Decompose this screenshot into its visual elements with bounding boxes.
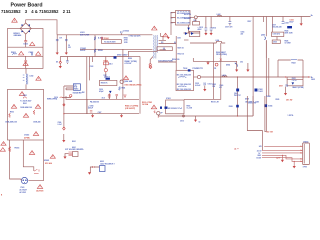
diode D901	[185, 32, 188, 35]
warning triangle at choke output	[163, 33, 168, 37]
bus3 continuing right of choke	[129, 56, 141, 58]
vertical x213.5	[213, 43, 215, 99]
cap drop 1	[205, 17, 207, 34]
SGND marks	[277, 157, 278, 159]
vertical x122.9	[122, 49, 124, 99]
vertical x140	[139, 57, 141, 114]
ground stub 2	[293, 161, 295, 166]
svg-text:D907: D907	[279, 86, 283, 88]
svg-text:CY1: CY1	[59, 37, 62, 39]
D903 diode on bus	[114, 56, 117, 58]
svg-text:C926: C926	[219, 85, 223, 87]
svg-text:Power Board: Power Board	[11, 3, 43, 9]
warning triangle mid	[29, 151, 34, 155]
gate network box	[99, 80, 117, 85]
svg-text:C910: C910	[180, 120, 184, 122]
AC inlet plug P901	[21, 177, 27, 183]
circle node Q	[194, 16, 197, 19]
svg-text:R W: R W	[74, 87, 78, 89]
title Power Board	[1, 3, 71, 14]
svg-text:R908: R908	[125, 61, 129, 63]
bus L line	[57, 34, 152, 36]
svg-text:222: 222	[68, 47, 71, 49]
junction dots on B+ rail	[285, 76, 286, 77]
svg-text:GND: GND	[257, 155, 261, 157]
Y-cap symbols on stubs	[56, 40, 68, 41]
IC903 box	[166, 100, 184, 114]
wire top right of T902	[193, 58, 210, 61]
svg-text:P901: P901	[21, 187, 25, 189]
svg-text:CY902 222 (OP): CY902 222 (OP)	[129, 36, 141, 38]
svg-text:R939 1K: R939 1K	[101, 83, 108, 85]
svg-text:C936: C936	[99, 89, 103, 91]
warning triangle	[36, 52, 41, 56]
svg-text:R932: R932	[212, 84, 216, 86]
svg-text:R916: R916	[187, 105, 191, 107]
warning triangle above Q904	[123, 76, 128, 80]
IC903 blue tabs	[160, 107, 162, 109]
svg-text:12: 12	[199, 121, 201, 123]
svg-text:B: B	[1, 194, 3, 196]
TH901 red box	[104, 62, 109, 65]
stub with cap on bus3	[66, 57, 68, 65]
top rail wire	[197, 16, 310, 18]
T901 winding box top	[176, 11, 191, 26]
svg-text:C933: C933	[90, 66, 94, 68]
warning triangle right of L902	[36, 76, 41, 80]
svg-text:17: 17	[279, 157, 281, 159]
C928 blue tab	[264, 104, 267, 107]
svg-text:C917 470: C917 470	[225, 25, 232, 28]
svg-text:IC903: IC903	[166, 98, 171, 100]
box around D902	[189, 31, 200, 36]
svg-text:Q903 A: Q903 A	[104, 75, 111, 78]
wire y40 stub	[184, 39, 189, 41]
section: top output rail	[197, 14, 313, 116]
svg-text:C916: C916	[212, 28, 216, 30]
svg-text:C921: C921	[290, 20, 294, 22]
small caps on those wires	[162, 41, 176, 43]
resistor R910	[94, 49, 96, 53]
warning triangle in box bottom	[23, 62, 28, 66]
capacitor C902	[32, 53, 33, 56]
svg-text:POWER TR: POWER TR	[193, 68, 204, 70]
svg-text:E901: E901	[72, 141, 76, 143]
cap drop 2	[210, 17, 212, 34]
svg-text:R935: R935	[276, 99, 280, 101]
diamond node right	[149, 66, 152, 69]
wire from IC box top right	[184, 43, 221, 99]
ground under choke	[149, 64, 151, 68]
C936 diode	[109, 91, 112, 94]
junction dot	[237, 115, 238, 116]
diamond node	[59, 61, 61, 64]
svg-text:MC 100-1090-1M: MC 100-1090-1M	[177, 89, 191, 91]
svg-text:H902: H902	[100, 161, 104, 163]
svg-text:C901: C901	[23, 44, 29, 46]
svg-text:PA-500/100: PA-500/100	[90, 101, 99, 104]
wire T902 right to circle node	[194, 76, 198, 78]
svg-text:Q901: Q901	[234, 93, 238, 95]
svg-text:2SC5707: 2SC5707	[234, 95, 241, 97]
svg-text:R914 100: R914 100	[172, 58, 179, 61]
small box under circle	[193, 22, 200, 26]
svg-text:EMI FILTER: EMI FILTER	[80, 35, 90, 37]
svg-text:380V: 380V	[311, 79, 316, 81]
routing wires down to connector	[247, 96, 262, 150]
svg-text:0.1uF: 0.1uF	[58, 124, 62, 126]
warning triangle above choke	[152, 26, 157, 30]
svg-text:R930: R930	[128, 58, 132, 60]
svg-text:R926: R926	[285, 41, 289, 43]
svg-text:8 PIN: 8 PIN	[303, 166, 308, 168]
Q901 block	[236, 89, 239, 92]
ground Y-cap 2	[65, 53, 68, 55]
warning triangle right of plug	[37, 185, 42, 189]
D907 clamp network	[287, 77, 303, 86]
svg-text:24_5V: 24_5V	[257, 149, 263, 152]
svg-text:R906: R906	[124, 37, 128, 39]
svg-text:220: 220	[241, 34, 244, 36]
svg-text:100uF: 100uF	[289, 21, 294, 23]
junction dot	[63, 113, 64, 114]
riser joining pins	[170, 13, 172, 36]
svg-text:C919 472: C919 472	[273, 33, 280, 36]
feed line y61.3	[210, 61, 248, 69]
svg-text:D904: D904	[226, 64, 230, 67]
svg-text:OK 20A: OK 20A	[142, 103, 149, 106]
caps on top of bus	[108, 95, 118, 96]
capacitor under bridge	[24, 41, 27, 42]
svg-text:1N4007 (OPEN): 1N4007 (OPEN)	[292, 86, 304, 89]
svg-text:CX902: CX902	[24, 134, 29, 136]
cap CX across bus	[121, 31, 122, 33]
svg-text:T902: T902	[183, 68, 187, 70]
Q903 blue block	[106, 78, 110, 80]
box around input filter	[8, 29, 44, 69]
svg-text:C902: C902	[29, 52, 35, 54]
svg-text:(OPEN): (OPEN)	[24, 137, 30, 139]
svg-text:4.7 (OPEN): 4.7 (OPEN)	[128, 60, 137, 63]
svg-text:MOS 01: MOS 01	[178, 48, 184, 50]
svg-text:T 3.15A H 250V: T 3.15A H 250V	[20, 100, 32, 103]
bridge rectifier BD901	[20, 23, 31, 34]
cap drop right	[282, 17, 284, 22]
small red zigzag	[154, 111, 156, 114]
svg-text:5V: 5V	[258, 153, 261, 155]
svg-text:1N4148 RM: 1N4148 RM	[73, 91, 83, 94]
svg-text:(OR SHORT): (OR SHORT)	[125, 108, 135, 110]
svg-text:RV901: RV901	[15, 148, 20, 150]
vertical x272.4	[271, 17, 273, 33]
thermistor column	[105, 57, 107, 78]
box C920	[272, 40, 280, 44]
internal wire row1	[8, 46, 44, 48]
warning triangle right of C901	[30, 42, 35, 46]
svg-text:C914: C914	[241, 30, 245, 33]
R941 resistor	[119, 87, 121, 91]
vertical wire x92.4	[91, 57, 93, 63]
svg-text:100K-240K-100: 100K-240K-100	[20, 106, 32, 109]
svg-text:5D-9: 5D-9	[109, 63, 113, 65]
svg-text:KDC-A04: KDC-A04	[45, 162, 52, 165]
section: right middle	[201, 30, 316, 150]
svg-text:IC902: IC902	[258, 89, 262, 91]
vertical x263.6	[263, 17, 265, 23]
choke bottom wire to ground	[150, 57, 153, 64]
svg-text:715G2852 3 4 & 715G2852 2 11: 715G2852 3 4 & 715G2852 2 11	[1, 9, 71, 14]
bus N line	[80, 48, 152, 50]
box2 discharge network	[8, 89, 44, 140]
choke L902 between boxes	[26, 74, 28, 85]
warning triangle left	[11, 104, 16, 108]
junction dots at connector	[302, 146, 303, 147]
svg-text:TP: TP	[161, 112, 164, 114]
red X on that wire	[220, 59, 222, 61]
riser to T902	[175, 36, 177, 70]
svg-text:C918: C918	[285, 22, 289, 24]
svg-text:TH901: TH901	[103, 60, 108, 62]
wire under text	[158, 61, 176, 63]
svg-text:SW901: SW901	[44, 160, 49, 162]
T901 pin wires	[171, 13, 176, 23]
svg-text:1.5R TA: 1.5R TA	[288, 114, 295, 117]
svg-text:F901: F901	[23, 95, 27, 97]
resistor R909 between buses	[94, 35, 96, 57]
wire y43 with inductor	[190, 42, 225, 44]
svg-text:RM: RM	[82, 92, 85, 94]
svg-text:100K-240: 100K-240	[33, 121, 40, 124]
vertical feed to snubber area	[252, 17, 254, 117]
ground under network	[285, 87, 287, 93]
diode on that wire	[187, 28, 190, 30]
test circle left of IC903	[157, 112, 160, 115]
svg-text:CAUTION: CAUTION	[36, 189, 44, 192]
svg-text:L904: L904	[216, 39, 220, 42]
wire from T901 bottom pin down	[188, 25, 190, 33]
grounds	[108, 93, 110, 96]
ground 1	[204, 33, 207, 35]
svg-text:CX902: CX902	[123, 31, 130, 33]
warning triangle	[19, 51, 24, 55]
snubber box across choke	[157, 47, 172, 51]
svg-text:100-390-220: 100-390-220	[272, 26, 282, 28]
red circle node	[70, 95, 72, 97]
ground stub 1	[281, 155, 283, 160]
circle on x213.5	[215, 63, 218, 66]
circle node B+ takeoff	[197, 75, 200, 78]
vertical wire x89.6	[89, 57, 91, 81]
vertical pair right	[266, 40, 269, 132]
warning triangle right	[151, 105, 156, 109]
svg-text:R922: R922	[292, 62, 296, 64]
svg-text:1C-30K: 1C-30K	[187, 107, 193, 109]
svg-text:On/Off: On/Off	[256, 158, 261, 160]
grounds on bottom rail	[93, 114, 122, 116]
stub wires to grounds under bus	[57, 35, 66, 53]
svg-text:R941: R941	[122, 87, 126, 90]
circle node on rail	[183, 115, 185, 117]
connector CN901	[73, 84, 80, 91]
svg-text:L902: L902	[30, 76, 34, 78]
ground right top	[300, 17, 302, 24]
ground 2	[210, 33, 213, 35]
connector wires	[264, 145, 302, 147]
svg-text:MC-33262-P-17uF: MC-33262-P-17uF	[168, 108, 182, 110]
thermistor circle	[104, 69, 107, 72]
svg-text:PGND: PGND	[266, 96, 271, 98]
svg-text:D9: D9	[56, 62, 58, 64]
svg-text:ZD: ZD	[214, 68, 217, 70]
svg-text:MC 100-1090-1M: MC 100-1090-1M	[177, 74, 191, 76]
Q904 circle	[120, 80, 123, 83]
wires from choke right to primary	[159, 40, 177, 50]
diamond ground at bottom	[63, 127, 66, 130]
section: PFC middle	[54, 14, 294, 130]
primary rail y=33	[184, 32, 200, 34]
svg-text:D905 1N4148 (OPEN): D905 1N4148 (OPEN)	[125, 84, 142, 87]
svg-text:R902: R902	[10, 111, 14, 113]
svg-text:D903 1N4007: D903 1N4007	[117, 54, 127, 57]
wire T901 right pin to circle	[190, 16, 194, 18]
ground under diamond	[59, 64, 61, 66]
svg-text:24V_SW: 24V_SW	[267, 131, 274, 134]
B+ rail	[201, 76, 311, 78]
wire bridge top to bus	[26, 20, 57, 35]
svg-text:0.47uF: 0.47uF	[80, 49, 85, 52]
svg-text:RM10: RM10	[74, 88, 78, 90]
warning triangle center	[23, 113, 28, 117]
svg-text:WIRE (OPEN): WIRE (OPEN)	[47, 99, 58, 101]
inductor L902 on rail	[217, 15, 221, 16]
svg-text:C914: C914	[54, 96, 58, 99]
warning triangle near bridge	[12, 18, 18, 22]
stray red mark	[235, 148, 239, 150]
svg-text:100K-240K-100: 100K-240K-100	[5, 121, 17, 124]
svg-text:C906: C906	[58, 122, 62, 124]
warning triangle near switch + red text	[50, 155, 55, 159]
diode D902	[191, 32, 194, 35]
svg-text:36.0: 36.0	[102, 97, 105, 99]
svg-text:L902: L902	[217, 14, 221, 16]
svg-text:24V: 24V	[259, 145, 263, 148]
svg-text:10 OHM: 10 OHM	[285, 43, 292, 45]
R922 snubber top	[278, 60, 303, 77]
ground above holder	[63, 134, 65, 140]
capacitor C903 at box bottom	[24, 60, 27, 61]
resistor R903	[12, 53, 17, 54]
fuse box F902	[101, 40, 121, 44]
warning triangle at box2 top	[19, 92, 24, 96]
svg-text:R918 100: R918 100	[184, 14, 191, 16]
section: transformer and primary	[157, 11, 212, 92]
IC902 blue tab	[255, 89, 258, 92]
svg-text:C9: C9	[68, 45, 70, 47]
warning triangle near CX902	[33, 132, 38, 136]
CN901 pin wires	[64, 86, 73, 90]
section: bottom right connector	[235, 141, 310, 168]
svg-text:T3.15A H 250V: T3.15A H 250V	[104, 41, 116, 44]
svg-text:R921: R921	[292, 78, 296, 80]
svg-text:1/2W: 1/2W	[124, 42, 128, 44]
svg-text:R920: R920	[229, 106, 233, 108]
diamond node on left rail	[63, 104, 65, 107]
section: AC input top-left	[8, 18, 58, 68]
ground Y-cap 1	[56, 53, 59, 55]
lower rail y116	[158, 115, 253, 117]
switch contacts	[34, 169, 39, 173]
svg-text:u10: u10	[60, 97, 63, 99]
ground under C912	[204, 86, 206, 89]
svg-text:R917: R917	[248, 21, 252, 23]
blue tab on T902 top	[188, 69, 191, 71]
svg-text:C92: C92	[240, 61, 243, 63]
warning triangles left of varistor	[1, 142, 6, 146]
svg-text:10K: 10K	[212, 86, 216, 88]
grounds under D904	[235, 70, 238, 72]
cap drop 3	[229, 17, 231, 26]
svg-text:R901: R901	[23, 103, 27, 105]
red arrow mark	[167, 37, 170, 39]
svg-text:R910: R910	[98, 50, 104, 52]
bus2 jog up into choke right	[60, 51, 157, 56]
svg-text:GBU406: GBU406	[14, 34, 23, 37]
node stub with diamond	[59, 57, 61, 62]
bulk cap bus	[66, 96, 139, 114]
svg-text:R912 10: R912 10	[178, 54, 184, 56]
MOSFET Q902	[265, 37, 266, 40]
inductor L903 on rail	[222, 76, 227, 77]
svg-text:R919 1.2R: R919 1.2R	[211, 101, 219, 103]
svg-text:R924: R924	[285, 30, 289, 33]
svg-text:L903: L903	[222, 75, 226, 77]
vertical wire x86.8	[86, 57, 88, 114]
section: EMI buses	[56, 26, 158, 67]
section: bottom left	[0, 68, 114, 196]
vertical feed from B+ rail	[237, 77, 239, 116]
varistor RV901	[9, 147, 11, 152]
svg-text:B+: B+	[311, 15, 313, 17]
blue tab	[287, 26, 292, 28]
ground right	[206, 62, 209, 64]
svg-text:0.22uF: 0.22uF	[195, 85, 200, 87]
wires below box2	[10, 140, 21, 179]
svg-text:C911: C911	[177, 37, 181, 39]
svg-text:H901: H901	[72, 147, 76, 149]
warning triangle right	[35, 104, 40, 108]
svg-text:24V_SW: 24V_SW	[286, 99, 293, 102]
svg-text:CN: CN	[74, 85, 76, 87]
svg-text:450uF: 450uF	[88, 106, 93, 109]
svg-text:Q904 1AM: Q904 1AM	[124, 80, 133, 83]
svg-text:IC904: IC904	[268, 105, 272, 108]
svg-text:FR107 (OPEN): FR107 (OPEN)	[216, 54, 227, 56]
ground under lower rail	[195, 116, 197, 120]
svg-text:Q902: Q902	[261, 34, 265, 36]
snubber box C916b	[272, 32, 284, 36]
common mode choke L901 windings	[153, 35, 157, 59]
svg-text:NC-10M21-10M: NC-10M21-10M	[177, 23, 190, 25]
bottom rail of bulk stage	[64, 86, 139, 127]
svg-text:C913: C913	[208, 84, 212, 86]
internal wire row2	[8, 55, 44, 57]
svg-text:C920: C920	[273, 42, 277, 44]
T902 winding box	[176, 70, 194, 90]
svg-text:C907: C907	[98, 112, 102, 114]
